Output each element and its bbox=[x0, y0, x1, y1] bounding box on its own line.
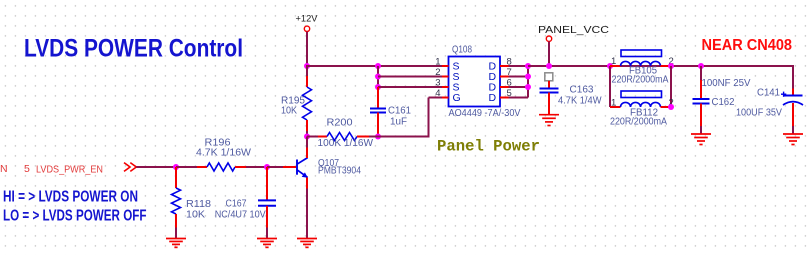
svg-text:1uF: 1uF bbox=[390, 117, 407, 128]
ground R118 bbox=[166, 238, 186, 240]
port chevron bbox=[124, 163, 130, 172]
svg-text:NC/4U7 10V: NC/4U7 10V bbox=[215, 210, 266, 221]
svg-text:100NF 25V: 100NF 25V bbox=[702, 78, 751, 89]
svg-text:4.7K 1/16W: 4.7K 1/16W bbox=[196, 148, 252, 159]
svg-text:10K: 10K bbox=[186, 209, 205, 220]
svg-text:R200: R200 bbox=[327, 118, 353, 129]
svg-text:100UF 35V: 100UF 35V bbox=[736, 108, 782, 119]
node junction bus row1 bbox=[525, 63, 531, 69]
capacitor C162 bbox=[700, 66, 702, 80]
svg-text:1: 1 bbox=[611, 56, 616, 67]
wire vertical bus x378 bbox=[377, 66, 379, 87]
svg-text:G: G bbox=[453, 92, 461, 104]
capacitor C141 (polarized) bbox=[792, 65, 794, 89]
transistor Q107 bbox=[283, 166, 296, 168]
wire +12V stub bbox=[306, 32, 308, 66]
node junction C167 bbox=[264, 164, 270, 170]
node junction bus row3 bbox=[525, 84, 531, 90]
svg-text:LVDS_PWR_EN: LVDS_PWR_EN bbox=[36, 163, 103, 175]
capacitor C167 bbox=[266, 167, 268, 200]
node junction +12V/R195/row1 bbox=[304, 63, 310, 69]
ferrite bead FB105 bbox=[610, 65, 621, 67]
svg-text:LO = > LVDS POWER OFF: LO = > LVDS POWER OFF bbox=[3, 208, 147, 225]
ground Q107 emitter bbox=[297, 238, 317, 240]
svg-text:HI = > LVDS POWER ON: HI = > LVDS POWER ON bbox=[3, 189, 138, 206]
svg-text:NEAR CN408: NEAR CN408 bbox=[702, 37, 793, 54]
capacitor C161 bbox=[377, 87, 379, 108]
node junction R118 bbox=[173, 164, 179, 170]
node junction FB left bbox=[607, 63, 613, 69]
resistor R118 bbox=[175, 167, 177, 188]
svg-text:Q108: Q108 bbox=[452, 44, 472, 55]
resistor R200 bbox=[307, 136, 318, 138]
wire R196 to C167 node bbox=[246, 166, 267, 168]
resistor R195 bbox=[306, 67, 308, 76]
svg-text:5: 5 bbox=[24, 163, 30, 175]
wire port to R118 bbox=[136, 166, 176, 168]
svg-text:D: D bbox=[489, 92, 497, 104]
Q107 emitter pin bbox=[306, 178, 308, 189]
node junction R195/R200/Q107 collector bbox=[304, 134, 310, 140]
svg-text:220R/2000mA: 220R/2000mA bbox=[610, 117, 667, 128]
node junction bus row2 bbox=[525, 74, 531, 80]
node junction FB right bbox=[668, 63, 674, 69]
C141 plus sign bbox=[781, 93, 786, 95]
svg-text:C141: C141 bbox=[757, 88, 780, 99]
svg-text:3: 3 bbox=[435, 77, 440, 88]
svg-text:LVDS POWER Control: LVDS POWER Control bbox=[24, 35, 243, 63]
svg-text:N: N bbox=[0, 163, 8, 175]
ground C167 bbox=[257, 238, 277, 240]
ground C141 bbox=[783, 133, 803, 135]
wire FB right vertical bbox=[670, 66, 672, 107]
svg-text:100K 1/16W: 100K 1/16W bbox=[318, 138, 374, 149]
mosfet U Q108 box bbox=[449, 57, 501, 107]
node junction C161 bottom bbox=[375, 134, 381, 140]
node junction PANEL_VCC bbox=[546, 63, 552, 69]
svg-text:C163: C163 bbox=[570, 85, 594, 96]
wire main output row bbox=[528, 65, 793, 67]
node junction x378 row2 bbox=[375, 74, 381, 80]
svg-text:4.7K 1/4W: 4.7K 1/4W bbox=[558, 96, 602, 107]
svg-text:C161: C161 bbox=[388, 105, 411, 116]
wire Q108 drain bus x528 bbox=[509, 65, 529, 67]
svg-text:10K: 10K bbox=[281, 106, 297, 117]
ground C163 bbox=[539, 114, 559, 116]
svg-text:PANEL_VCC: PANEL_VCC bbox=[538, 24, 609, 36]
Q107 collector pin bbox=[306, 148, 308, 159]
ferrite bead FB112 bbox=[610, 106, 621, 108]
wire gate net to Q108 pin4 bbox=[378, 136, 429, 138]
svg-text:+12V: +12V bbox=[296, 14, 319, 25]
svg-text:220R/2000mA: 220R/2000mA bbox=[612, 75, 669, 86]
wire to R196 bbox=[176, 166, 197, 168]
node junction FB112 pin2 bbox=[668, 104, 674, 110]
svg-text:1: 1 bbox=[611, 97, 616, 108]
svg-text:2: 2 bbox=[435, 67, 440, 78]
no-ERC marker square bbox=[545, 73, 553, 81]
svg-text:4: 4 bbox=[435, 88, 440, 99]
resistor R196 bbox=[197, 166, 207, 168]
svg-text:1: 1 bbox=[435, 56, 440, 67]
node junction x378 row1 bbox=[375, 63, 381, 69]
capacitor C163 bbox=[548, 81, 550, 89]
svg-text:C162: C162 bbox=[712, 97, 735, 108]
node junction C162 bbox=[698, 63, 704, 69]
wire row1 to Q108 pin1 bbox=[306, 65, 442, 67]
node junction x378 row3 / C161 top bbox=[375, 84, 381, 90]
svg-text:AO4449 -7A/-30V: AO4449 -7A/-30V bbox=[449, 108, 521, 119]
svg-text:C167: C167 bbox=[226, 199, 247, 210]
wire FB left vertical bbox=[609, 66, 611, 107]
svg-text:PMBT3904: PMBT3904 bbox=[318, 166, 361, 177]
wire row3 to Q108 pin3 bbox=[378, 86, 442, 88]
Q108 right pin stubs 8 7 6 5 bbox=[500, 65, 509, 67]
wire to Q107 base bbox=[267, 166, 283, 168]
svg-text:Panel Power: Panel Power bbox=[437, 137, 540, 155]
wire row2 to Q108 pin2 bbox=[378, 76, 442, 78]
Q108 left pin stubs 1 2 3 4 bbox=[442, 65, 449, 67]
ground C162 bbox=[691, 133, 711, 135]
